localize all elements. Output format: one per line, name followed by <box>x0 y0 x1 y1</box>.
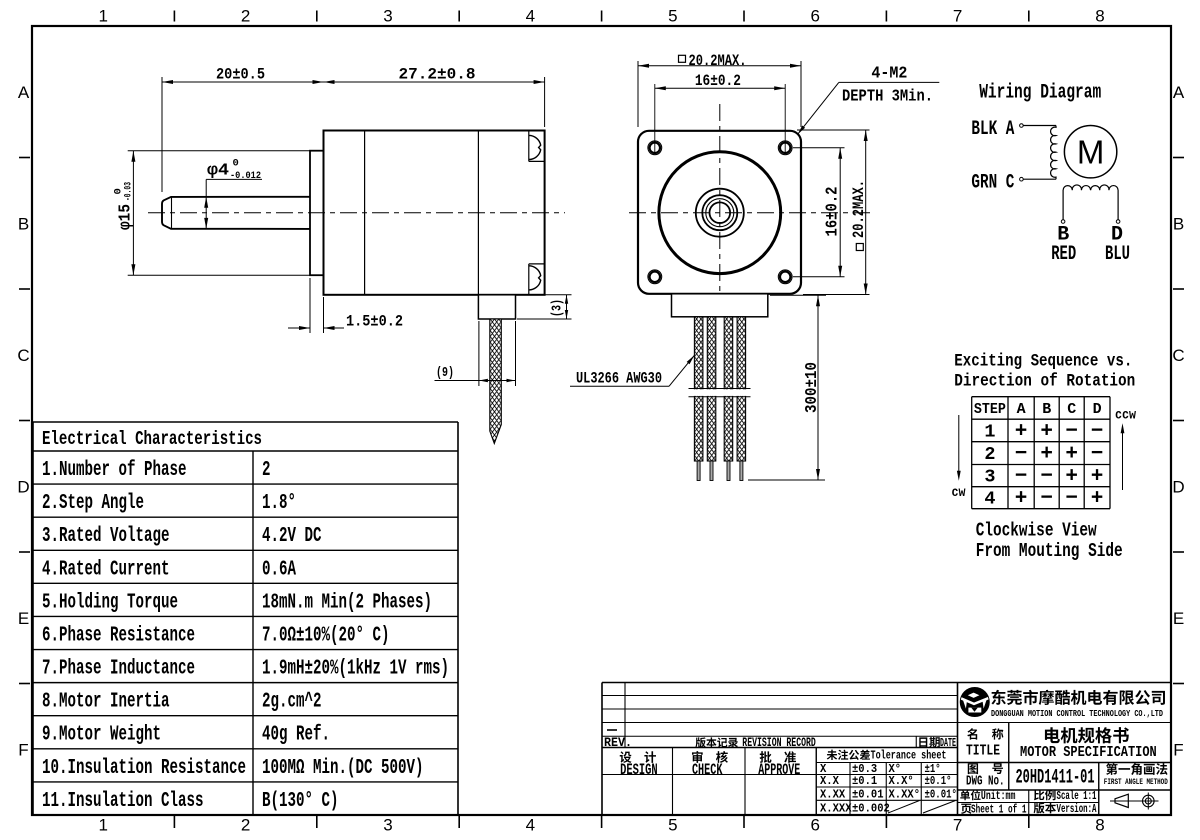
date header <box>919 737 940 748</box>
svg-text:B: B <box>18 214 29 233</box>
svg-text:−: − <box>1065 488 1078 511</box>
version cell <box>1034 803 1056 814</box>
svg-text:±0.01: ±0.01 <box>852 788 884 802</box>
svg-text:6.Phase Resistance: 6.Phase Resistance <box>42 624 195 647</box>
svg-text:−: − <box>1065 420 1078 443</box>
svg-text:-0.03: -0.03 <box>123 182 135 201</box>
side view motor shaft <box>162 197 310 229</box>
svg-text:18mN.m Min(2 Phases): 18mN.m Min(2 Phases) <box>262 591 432 614</box>
svg-text:Scale 1:1: Scale 1:1 <box>1057 790 1097 803</box>
svg-text:3: 3 <box>984 467 995 488</box>
svg-text:1.Number of Phase: 1.Number of Phase <box>42 459 187 482</box>
svg-text:1: 1 <box>98 7 107 26</box>
svg-text:E: E <box>18 609 29 628</box>
svg-text:2: 2 <box>984 444 995 465</box>
svg-text:6: 6 <box>810 816 819 835</box>
svg-text:DONGGUAN MOTION CONTROL TECHNO: DONGGUAN MOTION CONTROL TECHNOLOGY CO.,L… <box>991 708 1163 719</box>
svg-text:GRN C: GRN C <box>971 172 1014 195</box>
svg-text:From Mouting Side: From Mouting Side <box>976 540 1123 562</box>
svg-text:D: D <box>17 477 29 496</box>
svg-text:8: 8 <box>1095 816 1104 835</box>
svg-text:Version:A: Version:A <box>1057 803 1097 816</box>
svg-text:STEP: STEP <box>974 401 1006 418</box>
title cell <box>967 728 1003 739</box>
dimension (3) <box>517 294 572 296</box>
wire C to coil <box>1023 178 1056 180</box>
svg-text:CHECK: CHECK <box>692 761 723 779</box>
svg-text:−: − <box>1040 488 1053 511</box>
svg-text:REV.: REV. <box>604 735 632 750</box>
dimension □20.2MAX vertical <box>797 129 870 131</box>
zone row ticks <box>19 157 30 159</box>
svg-text:RED: RED <box>1051 243 1076 266</box>
svg-text:±0.1°: ±0.1° <box>925 774 952 788</box>
revision record header <box>695 737 737 747</box>
svg-text:−: − <box>1040 466 1053 489</box>
svg-text:5: 5 <box>668 7 677 26</box>
svg-text:10.Insulation Resistance: 10.Insulation Resistance <box>42 757 246 780</box>
svg-text:1: 1 <box>98 816 107 835</box>
svg-text:5: 5 <box>668 816 677 835</box>
dimension □20.2MAX horizontal <box>637 61 639 127</box>
svg-text:C: C <box>1172 346 1184 365</box>
svg-text:F: F <box>1173 740 1183 759</box>
svg-text:4: 4 <box>526 7 535 26</box>
svg-text:+: + <box>1040 443 1053 466</box>
front vertical centerline <box>719 104 721 317</box>
svg-text:2g.cm^2: 2g.cm^2 <box>262 691 322 714</box>
svg-text:REVISION RECORD: REVISION RECORD <box>742 736 816 750</box>
cw arrow <box>958 415 960 476</box>
dimension φ15 0/-0.03 <box>128 150 311 152</box>
svg-text:DESIGN: DESIGN <box>620 761 658 779</box>
first angle cell <box>1106 763 1168 775</box>
svg-text:B(130° C): B(130° C) <box>262 790 339 813</box>
svg-text:FIRST ANGLE METHOD: FIRST ANGLE METHOD <box>1104 778 1168 787</box>
svg-text:(9): (9) <box>436 366 454 381</box>
svg-text:8: 8 <box>1095 7 1104 26</box>
svg-text:−: − <box>1015 466 1028 489</box>
svg-text:1: 1 <box>984 421 995 442</box>
svg-text:A: A <box>1173 83 1185 102</box>
svg-text:Wiring Diagram: Wiring Diagram <box>979 82 1101 105</box>
first angle projection symbol <box>1110 800 1159 802</box>
svg-text:3.Rated Voltage: 3.Rated Voltage <box>42 525 170 548</box>
svg-text:4-M2: 4-M2 <box>871 64 907 83</box>
dimension (9) <box>478 321 480 386</box>
svg-text:3: 3 <box>383 7 392 26</box>
title block grid <box>602 682 1171 684</box>
svg-text:Sheet 1 of 1: Sheet 1 of 1 <box>971 804 1027 817</box>
svg-text:Unit:mm: Unit:mm <box>981 790 1016 803</box>
side view bottom clip <box>528 264 530 295</box>
svg-text:DEPTH 3Min.: DEPTH 3Min. <box>842 86 933 105</box>
svg-text:X.XX: X.XX <box>820 788 846 802</box>
wire A to coil <box>1023 125 1056 127</box>
svg-text:4: 4 <box>526 816 535 835</box>
svg-text:−: − <box>1091 420 1104 443</box>
front shaft chamfer circle <box>702 195 737 230</box>
svg-text:X.X: X.X <box>820 774 840 788</box>
svg-text:20±0.5: 20±0.5 <box>216 66 265 84</box>
svg-text:2: 2 <box>262 459 271 482</box>
side view front endcap line <box>364 131 366 295</box>
cable break symbol <box>689 389 751 396</box>
terminal dot A <box>1020 124 1024 128</box>
step table grid <box>972 396 1110 398</box>
svg-text:1.9mH±20%(1kHz 1V rms): 1.9mH±20%(1kHz 1V rms) <box>262 658 449 681</box>
svg-text:20.2MAX.: 20.2MAX. <box>850 180 868 238</box>
svg-text:4: 4 <box>984 489 995 510</box>
terminal dot D <box>1116 220 1120 224</box>
company name CN <box>991 690 1165 705</box>
svg-text:7: 7 <box>953 816 962 835</box>
zone division ticks <box>173 11 175 22</box>
svg-text:E: E <box>1173 609 1184 628</box>
side view wire exit block <box>478 295 515 319</box>
svg-text:300±10: 300±10 <box>802 362 821 413</box>
svg-text:+: + <box>1091 466 1104 489</box>
svg-text:−: − <box>1015 443 1028 466</box>
svg-text:(3): (3) <box>551 299 566 317</box>
svg-text:−: − <box>1091 443 1104 466</box>
svg-text:A: A <box>18 83 30 102</box>
svg-text:9.Motor Weight: 9.Motor Weight <box>42 724 161 747</box>
svg-text:3: 3 <box>383 816 392 835</box>
svg-text:7.0Ω±10%(20° C): 7.0Ω±10%(20° C) <box>262 624 390 647</box>
svg-text:Exciting Sequence vs.: Exciting Sequence vs. <box>954 352 1132 372</box>
svg-text:16±0.2: 16±0.2 <box>823 187 842 237</box>
dimension 16±0.2 horizontal <box>655 87 785 89</box>
scale cell <box>1034 790 1056 801</box>
ccw arrow <box>1122 428 1124 490</box>
mounting hole bottom-left M2 <box>648 270 662 284</box>
svg-text:Tolerance sheet: Tolerance sheet <box>871 749 947 763</box>
svg-text:D: D <box>1172 477 1184 496</box>
centerline segment in wire block <box>719 295 721 317</box>
motor circle <box>1064 126 1116 178</box>
sheet cell <box>961 804 972 814</box>
svg-text:D: D <box>1093 401 1102 418</box>
front bearing boss circle <box>696 189 744 237</box>
dimension φ4 0/-0.012 <box>205 179 207 229</box>
side view centerline <box>148 212 565 214</box>
side view ribbon cable <box>490 319 502 444</box>
check label <box>692 751 728 763</box>
svg-text:B: B <box>1042 401 1051 418</box>
svg-text:40g Ref.: 40g Ref. <box>262 724 330 747</box>
svg-text:16±0.2: 16±0.2 <box>695 72 741 90</box>
svg-text:8.Motor Inertia: 8.Motor Inertia <box>42 691 170 714</box>
unit cell <box>960 790 980 800</box>
svg-text:F: F <box>18 740 28 759</box>
svg-text:BLU: BLU <box>1105 243 1130 266</box>
svg-text:-0.012: -0.012 <box>230 170 261 182</box>
front horizontal centerline <box>629 212 871 214</box>
svg-text:X.XXX: X.XXX <box>820 801 852 815</box>
svg-text:2: 2 <box>241 7 250 26</box>
svg-text:A: A <box>1017 401 1026 418</box>
svg-text:BLK A: BLK A <box>971 118 1014 141</box>
tolerance sheet header <box>827 750 870 760</box>
revision dash <box>607 729 617 731</box>
dimension 16±0.2 vertical <box>793 147 845 149</box>
svg-text:φ15: φ15 <box>116 204 135 230</box>
electrical characteristics table grid <box>33 421 458 423</box>
dwg no cell <box>968 763 1003 774</box>
side view rear endcap line <box>477 131 479 295</box>
svg-text:+: + <box>1040 420 1053 443</box>
side view motor body <box>324 131 545 295</box>
svg-text:M: M <box>1077 133 1105 170</box>
design label <box>620 751 656 763</box>
svg-text:100MΩ Min.(DC 500V): 100MΩ Min.(DC 500V) <box>262 757 424 780</box>
doc title CN <box>1045 727 1129 743</box>
svg-text:7: 7 <box>953 7 962 26</box>
svg-text:Direction of Rotation: Direction of Rotation <box>954 372 1135 392</box>
svg-text:Clockwise View: Clockwise View <box>976 520 1097 542</box>
front shaft circle φ4 <box>710 202 731 223</box>
svg-text:2: 2 <box>241 816 250 835</box>
svg-text:6: 6 <box>810 7 819 26</box>
svg-text:MOTOR SPECIFICATION: MOTOR SPECIFICATION <box>1020 745 1157 761</box>
svg-text:20HD1411-01: 20HD1411-01 <box>1016 766 1095 789</box>
svg-text:UL3266 AWG30: UL3266 AWG30 <box>576 370 662 388</box>
svg-text:φ4: φ4 <box>207 161 229 180</box>
mounting hole bottom-right M2 <box>778 270 792 284</box>
svg-text:TITLE: TITLE <box>966 743 1000 760</box>
dimension 20±0.5 <box>161 77 163 192</box>
svg-text:0.6A: 0.6A <box>262 558 296 581</box>
svg-text:4.Rated Current: 4.Rated Current <box>42 558 170 581</box>
svg-text:7.Phase Inductance: 7.Phase Inductance <box>42 658 195 681</box>
svg-text:ccw: ccw <box>1115 407 1136 423</box>
svg-text:APPROVE: APPROVE <box>758 761 800 779</box>
svg-text:+: + <box>1065 466 1078 489</box>
side view pilot flange <box>310 151 324 276</box>
svg-text:5.Holding Torque: 5.Holding Torque <box>42 591 178 614</box>
svg-text:DWG No.: DWG No. <box>966 773 1005 789</box>
stripped wire tips <box>697 461 700 481</box>
svg-text:1.8°: 1.8° <box>262 492 296 515</box>
phase B-D coil <box>1063 185 1118 220</box>
front wire exit block <box>672 294 768 317</box>
hole centerline extensions <box>654 84 656 154</box>
terminal dot B <box>1061 220 1065 224</box>
svg-text:+: + <box>1091 488 1104 511</box>
dimension 300±10 <box>770 294 826 296</box>
dimension 27.2±0.8 <box>544 77 546 127</box>
svg-text:X.X°: X.X° <box>889 774 914 788</box>
svg-text:+: + <box>1065 443 1078 466</box>
svg-text:0: 0 <box>233 158 239 170</box>
svg-text:±0.01°: ±0.01° <box>925 788 957 802</box>
svg-text:4.2V DC: 4.2V DC <box>262 525 322 548</box>
mounting hole top-left M2 <box>648 141 662 155</box>
svg-text:±0.1: ±0.1 <box>852 774 877 788</box>
svg-text:±0.002: ±0.002 <box>852 801 890 815</box>
svg-text:C: C <box>17 346 29 365</box>
svg-text:cw: cw <box>952 485 966 501</box>
svg-text:Electrical Characteristics: Electrical Characteristics <box>42 428 262 450</box>
four braided lead wires UL3266 AWG30 <box>694 317 703 461</box>
svg-text:27.2±0.8: 27.2±0.8 <box>399 66 476 84</box>
svg-text:20.2MAX.: 20.2MAX. <box>689 52 747 70</box>
approve label <box>760 751 796 763</box>
svg-text:X.XX°: X.XX° <box>889 788 921 802</box>
front pilot boss circle φ15 <box>659 152 781 274</box>
front view motor body square <box>638 131 801 294</box>
phase A-C coil <box>1051 126 1056 180</box>
dimension 1.5±0.2 <box>309 278 311 333</box>
svg-text:+: + <box>1015 420 1028 443</box>
svg-text:1.5±0.2: 1.5±0.2 <box>346 313 403 331</box>
svg-text:+: + <box>1015 488 1028 511</box>
tolerance slash marks <box>888 801 920 814</box>
front shaft circle outer <box>706 199 734 227</box>
svg-text:11.Insulation Class: 11.Insulation Class <box>42 790 204 813</box>
svg-text:B: B <box>1173 214 1184 233</box>
svg-text:C: C <box>1067 401 1076 418</box>
mounting hole top-right M2 <box>778 141 792 155</box>
side view top clip <box>528 131 530 162</box>
terminal dot C <box>1020 177 1024 181</box>
svg-text:2.Step Angle: 2.Step Angle <box>42 492 144 515</box>
